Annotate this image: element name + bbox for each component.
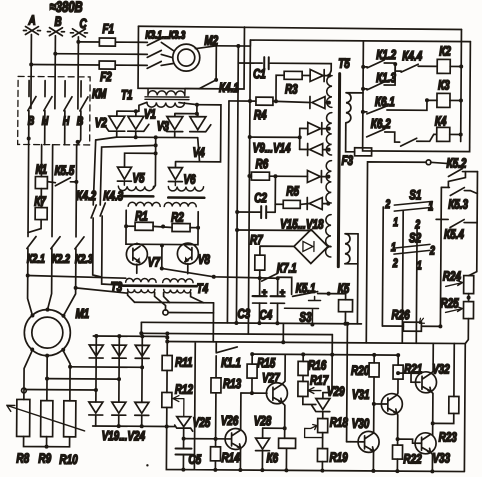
diode V23 [112, 402, 126, 415]
node junction C5 [182, 437, 186, 441]
node junction col3 mid [140, 365, 144, 369]
svg-text:С2: С2 [254, 191, 267, 206]
contact K5.4 [436, 219, 477, 227]
wire V32 base link [398, 373, 420, 382]
node junction R6 left [247, 174, 251, 178]
svg-text:R14: R14 [221, 451, 240, 466]
node junction coil bus K4 [459, 133, 463, 137]
node junction bottom col3 [140, 424, 144, 428]
wire C into M1 [63, 288, 75, 316]
node junction [154, 135, 158, 139]
relay coil K3 [437, 93, 450, 107]
resistor R22 [392, 445, 402, 459]
node dots bottom bus [181, 468, 434, 474]
contact K5.5 [47, 178, 76, 186]
node junction A-M1 [26, 273, 30, 277]
wire R19 down [321, 462, 323, 471]
contact K3.1 [138, 38, 173, 50]
winding under V5 [118, 181, 153, 191]
diode V13 [307, 170, 328, 182]
svg-text:К2.1: К2.1 [27, 252, 45, 266]
svg-text:R26: R26 [391, 308, 410, 323]
contact KM forward pole 2 [44, 81, 52, 129]
node junction K4.3 feed [154, 143, 158, 147]
node junction emitter join [431, 421, 435, 425]
diode V14 [307, 197, 328, 209]
svg-text:2: 2 [429, 244, 435, 258]
diode V11 [300, 122, 329, 134]
resistor R24 trimmer [446, 275, 474, 293]
node junction K5 feed [327, 292, 331, 296]
svg-text:К2.2: К2.2 [52, 252, 70, 266]
svg-text:Н: Н [42, 114, 49, 128]
thyristor V2 [104, 116, 125, 131]
diode V6 [168, 167, 182, 181]
wire F1 to M2 box [115, 41, 138, 43]
node junction [68, 365, 72, 369]
wire F2 to M2 box [115, 64, 138, 66]
wire V32 emitter down [431, 391, 433, 435]
node junction col2 top [117, 334, 121, 338]
wire C4 top lead [277, 278, 279, 296]
svg-text:F2: F2 [100, 70, 112, 85]
svg-text:К5.4: К5.4 [444, 227, 464, 242]
node junction left edge r2 [361, 87, 365, 91]
wire bridge right to T5 [328, 246, 331, 248]
node junction R21 top [396, 353, 400, 357]
switch S2 wiper [394, 244, 430, 254]
node M1 terminal bottom [45, 354, 49, 358]
transformer T3 core [123, 284, 159, 287]
node junction 142/334 [139, 331, 143, 335]
node junction V28 tap [283, 426, 287, 430]
wire V30 emitter down [372, 451, 374, 471]
node junction V11 [327, 127, 331, 131]
node junction R24/R25 [467, 296, 471, 300]
node junction coil bus K2 [459, 65, 463, 69]
svg-text:К4.3: К4.3 [103, 189, 123, 204]
node junction [396, 371, 400, 375]
capacitor C2 [261, 206, 266, 218]
node junction [45, 377, 49, 381]
zener V25 [175, 417, 193, 432]
wire node row [165, 309, 213, 312]
node junction V14 [326, 202, 330, 206]
wire V33 emitter down [430, 452, 432, 471]
contact K4.1 [199, 80, 216, 89]
transistor V31 [374, 393, 403, 414]
node junction K5/323 [343, 322, 347, 326]
node junction left edge r1 [361, 65, 365, 69]
resistor R5 [283, 200, 300, 208]
wire R24-R25 [468, 294, 470, 302]
wire K5 top [329, 294, 346, 300]
node junction left edge r3 [361, 110, 365, 114]
node junction C4 top [276, 276, 280, 280]
transistor V33 [415, 433, 436, 454]
svg-text:V29: V29 [327, 384, 345, 399]
ink speck [146, 464, 148, 466]
wire phase A vertical [30, 35, 33, 109]
svg-text:R9: R9 [38, 451, 51, 466]
wire V25 to C5 [183, 428, 185, 448]
svg-text:К4.2: К4.2 [76, 189, 96, 204]
svg-text:2: 2 [392, 257, 398, 271]
wire R8-R10 bottoms [24, 436, 70, 446]
svg-text:V9...V14: V9...V14 [253, 141, 291, 156]
node junction R1 left [124, 224, 128, 228]
wire mid phase down [51, 145, 54, 237]
svg-text:R4: R4 [254, 108, 267, 123]
rheostat arrow [7, 405, 85, 431]
thyristor V4a [190, 117, 211, 132]
node junction [250, 391, 254, 395]
fuse F1 [99, 38, 115, 46]
transformer T5 core [338, 74, 339, 267]
svg-text:С4: С4 [259, 308, 272, 323]
wire R15 bottom to V27 base [241, 378, 267, 393]
svg-text:В: В [77, 115, 84, 129]
wire T3 bottom right lead [155, 292, 166, 309]
contact K3.3 [138, 61, 173, 68]
node M1 terminal bottom-right [61, 348, 65, 352]
svg-text:К2.3: К2.3 [75, 253, 93, 267]
wire T4 bottom leads [164, 292, 204, 302]
wire R1 leads [126, 226, 198, 228]
fuse F2 [99, 61, 115, 69]
svg-text:К1.3: К1.3 [376, 71, 396, 86]
node junction R6 right [273, 174, 277, 178]
wire R22 down [396, 459, 398, 471]
node junction emitter rail [160, 266, 164, 270]
node junction [235, 228, 239, 232]
svg-text:А: А [28, 13, 36, 28]
contact K2.1 [27, 237, 36, 276]
capacitor C1 [264, 57, 269, 69]
wire K4 right [450, 133, 461, 135]
transistor V32 [415, 372, 436, 393]
wire C1 stub [236, 46, 238, 323]
resistor R19 [317, 449, 327, 462]
node junction 234/323 [234, 321, 238, 325]
wire C to F1 [78, 41, 99, 43]
resistor R12 trimmer [162, 392, 184, 416]
wire S2 right terminal [439, 187, 442, 326]
wire M2 top tap [216, 40, 250, 46]
svg-text:К5.2: К5.2 [446, 156, 466, 171]
node junction box top left [165, 339, 169, 343]
wire R3 right to V9 [302, 74, 310, 76]
resistor R10 [64, 401, 76, 437]
svg-text:V8: V8 [198, 252, 211, 267]
resistor R14 [210, 447, 220, 461]
node junction [134, 135, 138, 139]
resistor R8 [17, 399, 30, 436]
wire V26 collector up [240, 393, 242, 430]
winding V6 core [168, 196, 204, 199]
wire T1 secondary right down [179, 103, 197, 114]
wire pole outputs to box bottom [29, 129, 81, 145]
wire vertical 333 [331, 335, 333, 355]
thyristor V1 [128, 116, 149, 131]
wire V6 branch [175, 105, 220, 168]
svg-text:Т5: Т5 [338, 56, 350, 71]
diode V21 [135, 345, 149, 358]
svg-text:К6: К6 [266, 451, 278, 466]
svg-text:К3: К3 [438, 78, 450, 93]
winding R2 top [164, 202, 196, 206]
svg-text:R18: R18 [330, 415, 349, 430]
wire tap to bridge col1 [24, 388, 96, 391]
wire B to M2 box [55, 53, 138, 56]
wire top right pair [175, 114, 198, 117]
wire tap to bridge col2 [47, 378, 119, 381]
wire top left pair [117, 111, 139, 116]
node junction col1 mid [94, 388, 98, 392]
wire K4.2 feed [93, 140, 95, 205]
wire C1 to V9 link [329, 71, 331, 76]
node junction col1 top [94, 334, 98, 338]
wire V30 collector up [373, 404, 375, 433]
wire vertical feed xB [248, 40, 250, 334]
svg-text:R25: R25 [441, 296, 460, 311]
node junction [195, 103, 199, 107]
node junction inside KM [27, 137, 31, 141]
wire V4 cathode down [198, 138, 200, 162]
svg-text:С1: С1 [253, 67, 266, 82]
node junction R7 bottom [258, 276, 262, 280]
svg-text:F3: F3 [341, 153, 353, 168]
node junction V26 base [214, 437, 218, 441]
node junction [165, 424, 169, 428]
svg-text:V32: V32 [432, 362, 450, 377]
wire V7/V8 emitter rail [161, 245, 163, 268]
node junction V10 [327, 101, 331, 105]
svg-text:К6.2: К6.2 [371, 117, 391, 132]
node junction R22 [396, 437, 400, 441]
resistor R26 trimmer [403, 318, 424, 331]
wire second bus [250, 40, 470, 42]
wire R18 to R19 [322, 433, 324, 449]
svg-text:В: В [28, 114, 35, 128]
node junction R2 right [196, 226, 200, 230]
wire R13 down [215, 393, 217, 447]
svg-text:К2: К2 [439, 44, 451, 59]
wire bus y334 [141, 333, 332, 334]
wire R7 bottom [259, 270, 261, 278]
wire T1 secondary left down [139, 102, 147, 111]
wire R4 leads [229, 101, 310, 103]
wire 333 to V29 [323, 355, 332, 393]
wire K4.1 to T1 [185, 88, 199, 90]
wire R17 to V29 [303, 396, 316, 404]
wire R14 down [214, 461, 216, 470]
node phase A terminal [23, 26, 40, 34]
node junction A [29, 63, 33, 67]
node junction box bottom mid [160, 243, 164, 247]
svg-text:С3: С3 [237, 307, 250, 322]
resistor R16 [298, 354, 308, 375]
resistor R21 [393, 355, 403, 379]
enclosure M2 box [138, 26, 244, 89]
svg-text:R12: R12 [175, 382, 194, 397]
wire bottoms left [117, 131, 198, 138]
svg-text:R20: R20 [351, 363, 370, 378]
diode V9 [310, 69, 328, 81]
contact KM reverse pole 1 [64, 81, 72, 129]
svg-text:М1: М1 [75, 307, 89, 322]
wire winding to F3 [346, 131, 355, 152]
node junction R11 top [165, 335, 169, 339]
svg-text:R23: R23 [439, 430, 458, 445]
node junction C-M1 [74, 286, 78, 290]
contactor KM dashed enclosure [18, 76, 90, 145]
wire R26 leads [382, 325, 440, 327]
winding T4 top [163, 279, 193, 283]
svg-text:К7.1: К7.1 [277, 261, 297, 276]
relay coil K1 [35, 145, 47, 189]
svg-text:V26: V26 [221, 414, 239, 429]
node junction [298, 135, 302, 139]
node junction col2 mid [117, 377, 121, 381]
resistor R25 trimmer [445, 301, 473, 318]
wire M1 bottom lead [46, 356, 48, 401]
wire R11 to R12 [166, 370, 168, 392]
wire phase C vertical [77, 37, 80, 109]
transformer T5 winding left [326, 76, 333, 257]
node junction C1 [236, 44, 240, 48]
wire C3 top lead [259, 278, 261, 296]
contact K2.2 [51, 237, 60, 280]
winding T3 bottom [128, 289, 155, 293]
wire R25 down [465, 319, 468, 344]
svg-text:V5: V5 [132, 171, 145, 186]
contact K1.3 [363, 64, 395, 90]
wire K2 right [450, 65, 461, 67]
svg-text:Т3: Т3 [111, 280, 123, 295]
wire vertical feed xA [227, 101, 229, 323]
rectifier bridge V15-V18 [294, 229, 328, 263]
svg-text:К5.3: К5.3 [448, 197, 468, 212]
wire left branch [96, 137, 117, 140]
transformer T1 core [145, 97, 189, 100]
diode V5 [117, 167, 131, 181]
svg-text:R15: R15 [257, 356, 276, 371]
relay coil K6 [278, 438, 295, 470]
wire bridge col2 [118, 336, 121, 426]
svg-text:+: + [262, 287, 268, 297]
node junction R4 left feed [248, 99, 252, 103]
svg-text:1: 1 [393, 216, 398, 230]
wire V7 emitter to T3 [136, 264, 138, 273]
svg-text:V6: V6 [183, 172, 196, 187]
wire mid pair verticals [299, 128, 301, 149]
svg-text:V1: V1 [144, 107, 156, 122]
node junction [134, 109, 138, 113]
transformer T4 core [160, 285, 197, 288]
wire S1 terminal down b [401, 211, 404, 343]
node junction R4 right [274, 99, 278, 103]
resistor R9 [41, 401, 53, 437]
resistor R3 [284, 71, 302, 79]
wire V27 emitter down to K6 [282, 402, 285, 438]
wire bridge col1 [95, 336, 98, 426]
node M1 terminal bottom-left [30, 348, 34, 352]
node junction 214 [212, 275, 216, 279]
wire V29 top [322, 393, 324, 399]
wire A to F2 [31, 64, 99, 66]
svg-text:КМ: КМ [92, 87, 107, 102]
svg-text:1: 1 [391, 241, 396, 255]
transistor V7 [126, 244, 147, 265]
svg-text:R13: R13 [223, 377, 242, 392]
wire C1 row [238, 63, 331, 71]
fuse F3 [355, 148, 372, 156]
svg-text:V33: V33 [432, 451, 450, 466]
contact KM reverse pole 2 [80, 81, 88, 129]
node junction 348/323 [345, 322, 349, 326]
capacitor C4 polarized [270, 296, 284, 323]
switch S1 wiper [394, 201, 432, 211]
contact K6.1 [363, 100, 437, 115]
wire to T3 upper [28, 276, 126, 279]
resistor R7 [255, 255, 265, 270]
winding T3 top [126, 278, 156, 282]
svg-text:К5.5: К5.5 [54, 163, 74, 178]
svg-text:R22: R22 [403, 452, 422, 467]
wire V5 top branch [124, 153, 155, 167]
node junction C3/323 [257, 321, 261, 325]
resistor R11 [162, 355, 172, 370]
node junction K4.1 [214, 78, 218, 82]
contact K5.2 [448, 168, 477, 176]
wire V33 base [398, 439, 422, 443]
transformer T1 primary [148, 88, 185, 95]
wire bridge top bus [93, 335, 167, 338]
wire mid tap [250, 136, 300, 138]
transformer T5 winding right lower [345, 234, 358, 264]
wire T3 output row [135, 301, 214, 304]
diode V10 [310, 96, 329, 108]
node junction C2 [235, 210, 239, 214]
node junction K4.4 [393, 62, 397, 66]
node M1 terminal top [45, 308, 49, 312]
svg-text:Т4: Т4 [197, 281, 209, 296]
resistor R17 trimmer [298, 375, 321, 396]
node junction R26 right [438, 324, 442, 328]
wire C2 leads [237, 204, 275, 212]
node junction bottom col2 [117, 424, 121, 428]
svg-text:V7: V7 [148, 255, 161, 270]
motor M2 inner [178, 49, 195, 66]
node phase B terminal [47, 28, 64, 36]
svg-text:≈380В: ≈380В [50, 0, 84, 15]
wire V29 down to R18 [322, 412, 324, 419]
contact K4.4 [395, 63, 437, 72]
wire R15 top [251, 354, 253, 364]
enclosure selector left/top [366, 162, 425, 343]
svg-text:R17: R17 [310, 373, 329, 388]
motor M1 outer [24, 309, 70, 355]
wire link bridge bus [166, 333, 168, 337]
transistor V30 [351, 431, 380, 452]
svg-text:С: С [79, 17, 87, 32]
node M1 terminal top-left [30, 314, 34, 318]
node junction V13 [326, 175, 330, 179]
node junction [195, 112, 199, 116]
contact KM forward pole 1 [28, 81, 36, 129]
svg-text:R19: R19 [329, 450, 348, 465]
